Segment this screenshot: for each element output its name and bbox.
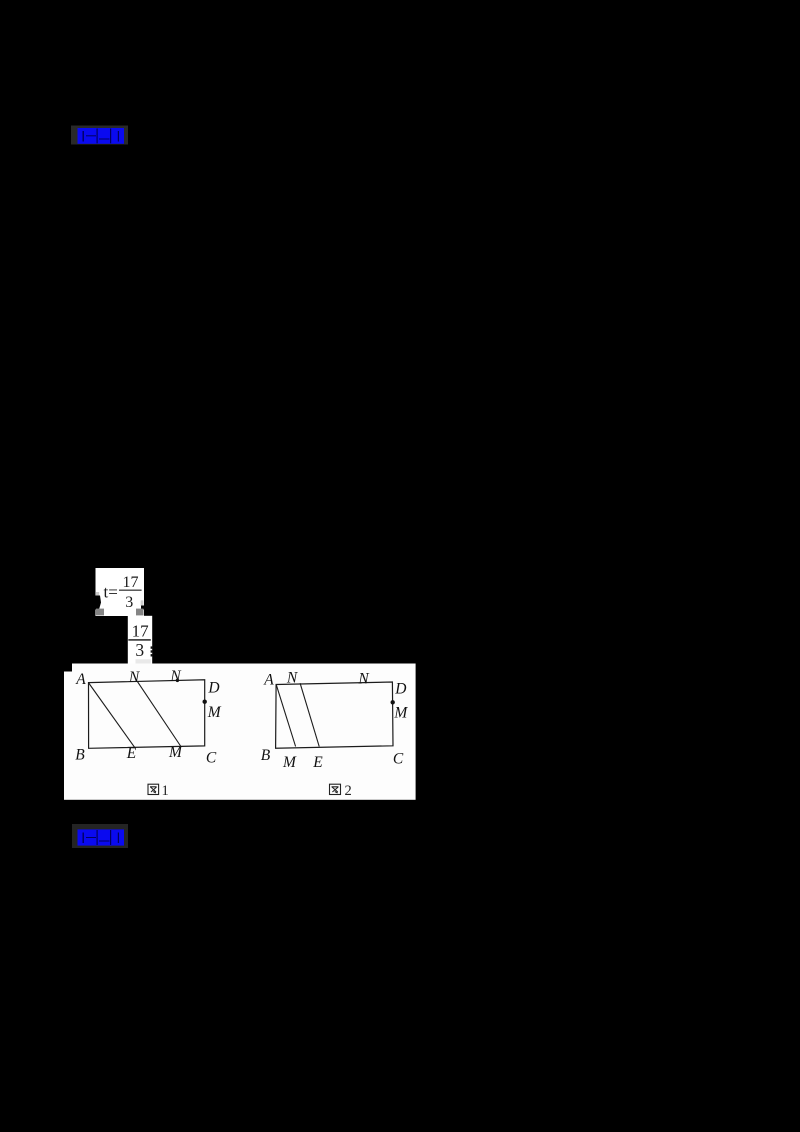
svg-text:B: B [75, 746, 85, 763]
svg-text:N: N [169, 668, 182, 685]
figure panel white box [64, 664, 416, 800]
heading 1 background box [71, 126, 128, 145]
svg-text:A: A [263, 672, 274, 689]
formula 1 right black notch [141, 606, 144, 611]
svg-text:D: D [394, 681, 406, 698]
formula 1 left black notch [96, 596, 102, 610]
svg-text:B: B [261, 747, 271, 764]
svg-text:E: E [312, 754, 323, 771]
figure 2 rectangle ABCD [276, 682, 393, 748]
svg-text:17: 17 [132, 621, 150, 640]
formula box 1 (white equation box: t = 17/3) [96, 568, 145, 616]
svg-text:M: M [207, 704, 222, 721]
svg-text:A: A [75, 671, 86, 688]
formula 1 right light-gray mark [141, 600, 144, 606]
figure panel top-left black notch [64, 664, 72, 672]
svg-text:C: C [206, 750, 217, 767]
figure 1 dot on right edge at M [203, 700, 207, 704]
figure 2 caption glyph 图 [330, 784, 341, 794]
svg-text:N: N [357, 670, 370, 687]
svg-text:17: 17 [123, 574, 139, 591]
svg-text:M: M [168, 744, 183, 761]
formula 1 fraction bar [119, 590, 142, 591]
figure 2 dot on right edge at M [391, 700, 395, 704]
figure 2 diagonal A-M [276, 685, 295, 747]
svg-text:D: D [207, 680, 219, 697]
heading 2 glyph gaps [83, 830, 120, 845]
formula 2 bottom gray strip [136, 659, 151, 663]
svg-text:E: E [126, 745, 137, 762]
heading 2 background box [72, 824, 128, 848]
svg-text:C: C [393, 750, 404, 767]
figure 1 rectangle ABCD [89, 680, 205, 749]
heading 1 glyph gaps [83, 129, 120, 144]
svg-text:M: M [282, 754, 297, 771]
svg-text:3: 3 [135, 640, 144, 660]
svg-text:1: 1 [162, 783, 169, 799]
formula 2 fraction bar [128, 639, 151, 641]
svg-text:t=: t= [104, 583, 118, 602]
svg-text:2: 2 [345, 783, 352, 799]
formula 1 selection handle right [136, 609, 144, 616]
formula 1 left light-gray mark [96, 592, 99, 596]
svg-text:N: N [128, 669, 141, 686]
formula box 2 (white equation box: 17/3) [128, 616, 152, 664]
figure 2 diagonal N-E [300, 683, 319, 746]
svg-text:N: N [286, 670, 299, 687]
figure 1 dot on top edge at N [176, 679, 179, 682]
figure 1 caption glyph 图 [148, 784, 159, 794]
svg-text:3: 3 [125, 594, 133, 611]
formula 1 selection handle left [96, 609, 104, 616]
heading 2 blue text blob (bold blue CJK heading) [78, 829, 125, 845]
figure 1 diagonal A-E [89, 683, 135, 747]
heading 1 blue text blob (bold blue CJK heading) [78, 128, 125, 144]
figure 1 diagonal N-M [137, 681, 181, 747]
svg-text:M: M [393, 705, 408, 722]
formula 2 right edge dashes [151, 646, 153, 656]
